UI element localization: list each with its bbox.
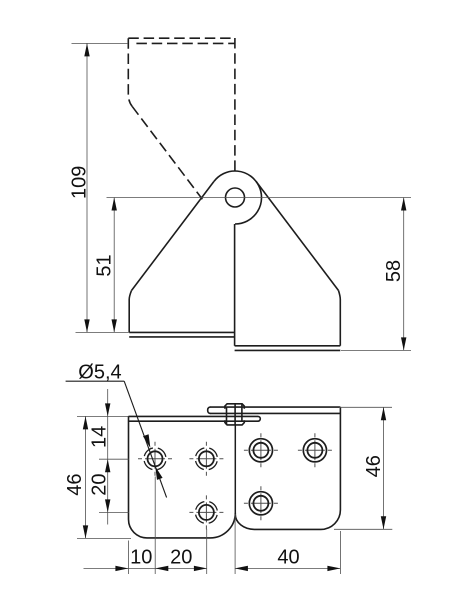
extension line left edge xyxy=(127,541,129,575)
svg-text:109: 109 xyxy=(68,166,90,199)
dimension line 10-20 xyxy=(84,567,207,569)
extension line hole row 1 xyxy=(99,458,129,460)
arrow 46R bottom xyxy=(381,516,386,529)
svg-text:10: 10 xyxy=(130,546,152,568)
left plate slant edge xyxy=(132,182,214,291)
arrow 46L top xyxy=(83,416,88,429)
phantom top edge upper xyxy=(128,37,235,39)
right plate bottom edge xyxy=(235,345,341,347)
dimension line 46 right xyxy=(383,407,385,529)
dimension line 109 xyxy=(86,43,88,332)
phantom right edge xyxy=(234,38,236,171)
svg-text:Ø5,4: Ø5,4 xyxy=(78,362,121,384)
knuckle left side xyxy=(226,407,228,425)
arrow 51 top xyxy=(112,198,117,211)
hole R2 countersink xyxy=(303,439,326,462)
hole R1 bore xyxy=(253,443,268,458)
hole L1 bore xyxy=(148,451,163,466)
phantom top edge lower xyxy=(136,42,235,44)
arrow 109 bottom xyxy=(84,319,89,332)
pivot hole xyxy=(226,188,245,207)
extension line hole col 1 xyxy=(154,477,156,575)
hole L3 bore xyxy=(199,505,214,520)
arrow 40 left xyxy=(235,566,248,571)
right plate slant edge xyxy=(256,182,338,291)
extension line right leaf bottom xyxy=(334,528,392,530)
svg-text:14: 14 xyxy=(89,426,111,448)
arrow 51 bottom xyxy=(112,319,117,332)
leader arrow lower xyxy=(155,466,162,480)
extension line pivot axis xyxy=(107,197,412,199)
left plate bottom hem line xyxy=(129,336,234,338)
arrow 58 bottom xyxy=(401,337,406,350)
svg-text:46: 46 xyxy=(363,455,385,477)
leader line diameter xyxy=(124,381,166,497)
left leaf outline xyxy=(129,416,236,538)
arrow 58 top xyxy=(401,198,406,211)
svg-text:40: 40 xyxy=(277,546,299,568)
phantom left edge xyxy=(128,38,132,106)
left plate left edge xyxy=(129,291,131,333)
hole L2 countersink hidden xyxy=(195,448,217,470)
dimension line 14-20 xyxy=(107,389,109,525)
arrow 20 left xyxy=(155,566,168,571)
right leaf outline xyxy=(235,407,340,529)
left plate bottom edge xyxy=(129,331,234,333)
right plate right edge xyxy=(339,291,341,346)
right plate bottom hem line xyxy=(235,349,341,351)
left leaf fold line xyxy=(129,420,259,422)
arrow 109 top xyxy=(84,43,89,56)
dimension line 58 xyxy=(403,198,405,351)
extension line right edge xyxy=(339,531,341,574)
knuckle center seam xyxy=(234,404,236,425)
extension line hole col 2 xyxy=(206,529,208,574)
leader shoulder xyxy=(66,380,125,382)
svg-text:58: 58 xyxy=(383,260,405,282)
dimension line 46 left xyxy=(85,416,87,538)
knuckle top cap xyxy=(225,404,244,409)
knuckle bottom cap xyxy=(225,420,244,425)
hole L1 center lines xyxy=(138,458,172,460)
extension line hole row 2 xyxy=(99,511,129,513)
pivot boss arc xyxy=(214,171,262,224)
svg-text:20: 20 xyxy=(170,546,192,568)
arrow 40 right xyxy=(327,566,340,571)
hole L1 countersink hidden xyxy=(144,448,166,470)
arrow 10 left outside xyxy=(115,566,128,571)
phantom slant edge xyxy=(132,106,202,199)
hole R1 countersink xyxy=(249,439,272,462)
dimension line 51 xyxy=(113,198,115,333)
extension line left plate bottom xyxy=(76,331,130,333)
left leaf wrap tab end xyxy=(258,416,260,421)
arrow 14 top outside xyxy=(105,403,110,416)
svg-text:46: 46 xyxy=(64,473,86,495)
knuckle right side xyxy=(241,404,243,421)
arrow 46R top xyxy=(381,407,386,420)
hole R2 center lines xyxy=(298,449,332,451)
right leaf fold line xyxy=(210,412,340,414)
right leaf top edge xyxy=(210,406,340,408)
svg-text:51: 51 xyxy=(94,254,116,276)
extension line top flange xyxy=(72,42,129,44)
hole R2 bore xyxy=(307,443,322,458)
hole R1 center lines xyxy=(244,449,278,451)
right plate left edge below pivot xyxy=(234,224,236,346)
extension line left leaf top xyxy=(77,415,129,417)
left leaf top edge xyxy=(129,415,259,417)
arrow 46L bottom xyxy=(83,525,88,538)
dimension line 40 xyxy=(235,567,341,569)
extension line right leaf top xyxy=(339,406,392,408)
leader arrow upper xyxy=(143,434,150,448)
hole L2 center lines xyxy=(189,458,223,460)
arrow 20 bottom xyxy=(105,499,110,512)
svg-text:20: 20 xyxy=(89,473,111,495)
extension line hinge axis xyxy=(234,514,236,574)
arrow 20 right xyxy=(194,566,207,571)
hole R3 center lines xyxy=(244,502,278,504)
hole R3 bore xyxy=(253,496,268,511)
right leaf wrap tab end xyxy=(208,407,211,413)
hole L3 center lines xyxy=(189,511,223,513)
extension line right plate bottom xyxy=(341,349,411,351)
hole L3 countersink hidden xyxy=(195,501,217,523)
leaf shared edge xyxy=(234,425,236,514)
extension line left leaf bottom xyxy=(77,537,131,539)
hole R3 countersink xyxy=(249,492,272,515)
arrow 20 top xyxy=(105,459,110,472)
hole L2 bore xyxy=(199,451,214,466)
